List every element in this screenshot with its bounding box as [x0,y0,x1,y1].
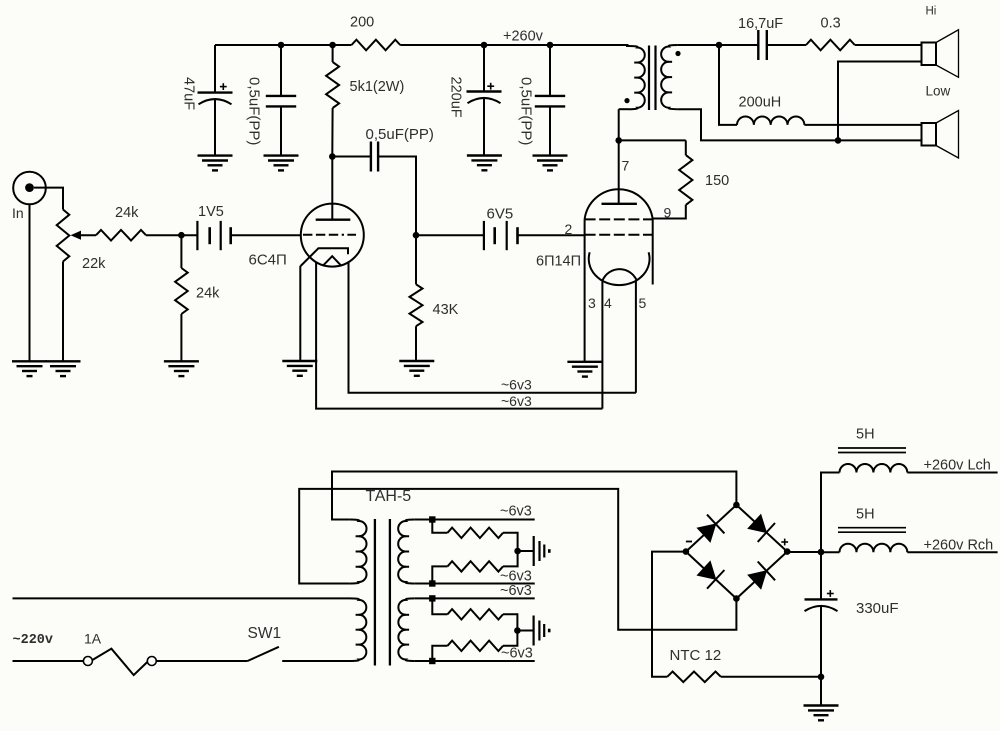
svg-text:In: In [12,205,24,221]
capacitor 0,5uF(PP) coupling [371,142,378,172]
fuse 1A [83,649,156,675]
wire heater lower top [415,597,535,599]
wire anode node to coupling cap [332,156,371,158]
svg-text:SW1: SW1 [248,625,282,642]
svg-text:43K: 43K [433,302,459,318]
diode D4 bottom-right [748,562,775,589]
diode D3 left-bottom [697,561,724,588]
wire plus node up to choke1 [821,473,840,553]
svg-text:~6v3: ~6v3 [500,583,532,599]
tube 6P14P envelope [585,189,653,284]
transformer TAN-5 HV winding [350,520,367,584]
tube 6C4P cathode [301,248,348,266]
tube 6P14P control grid dashed [585,234,653,236]
node bridge top [733,502,740,509]
wire 6P14P heater pin 4 [601,281,603,409]
resistor 24k horizontal body [96,230,146,241]
svg-text:220uF: 220uF [448,77,464,118]
polarity plus 47uF [220,83,227,90]
svg-text:6П14П: 6П14П [536,254,581,270]
svg-text:7: 7 [622,158,630,174]
node bridge left [683,548,690,555]
battery 6V5 [484,221,518,250]
transformer OPT secondary winding [661,45,678,109]
wire jack to potentiometer [34,188,63,210]
wire mains line upper [13,597,351,599]
resistor 5k1 body [326,45,339,157]
svg-text:+260v Rch: +260v Rch [924,538,994,554]
wire pot to ground [62,262,64,362]
node humdinger upper [514,548,521,555]
tube 6P14P anode [602,140,637,203]
transformer OPT primary winding [629,46,645,109]
node rail 5k1 [329,42,336,49]
wire OPT secondary top [678,44,758,46]
wire HV top to bridge [332,472,736,520]
svg-text:0,5uF(PP): 0,5uF(PP) [518,77,535,145]
wire NTC to ground node [721,676,821,678]
label bridge plus [781,539,788,546]
ground 6P14P cathode [567,362,602,377]
node heater upper top [429,516,435,522]
wire fuse to switch [156,660,247,662]
wire cap to 0.3 [767,44,806,46]
choke 5H second body [821,544,907,552]
svg-text:150: 150 [705,173,729,189]
capacitor 0,5uF(PP) second [535,45,565,156]
svg-text:NTC 12: NTC 12 [670,647,722,664]
ground potentiometer [46,361,81,376]
polarity plus 220uF [487,83,494,90]
wire switch to transformer [282,660,350,662]
humdinger resistor upper A [432,520,517,552]
transformer TAN-5 core [375,519,390,666]
svg-text:2: 2 [565,221,573,237]
ground jack [12,361,47,376]
inductor 200uH body [737,116,804,124]
svg-text:200: 200 [350,15,374,31]
svg-text:6С4П: 6С4П [249,252,287,269]
node humdinger lower [514,627,521,634]
wire +260v rail right [400,44,628,46]
svg-text:+260v Lch: +260v Lch [924,458,991,474]
wire heater upper bottom [415,583,535,585]
svg-text:16,7uF: 16,7uF [738,16,783,32]
diode D1 left-top [697,515,724,542]
node psu ground [818,674,825,681]
wire 6P14P cathode pin 3 [584,219,586,361]
bridge rectifier frame [686,505,787,599]
resistor 24k vertical body [175,235,188,361]
wire 200uH to Low speaker [804,124,921,126]
wire heater upper top [415,519,535,521]
capacitor 47uF [198,45,233,156]
wire humdinger lower to ground [517,630,533,632]
svg-text:ТАН-5: ТАН-5 [366,488,412,505]
wire heater lower bottom [415,660,535,662]
humdinger resistor upper B [432,551,517,584]
ground 47uF [198,156,233,171]
ground 0,5uF second [533,156,568,171]
wire anode node up [618,109,620,140]
transformer OPT core [649,46,656,111]
node bridge bottom [733,595,740,602]
speaker Low [922,111,959,159]
ground 24k [164,361,199,376]
node anode pin7 [615,137,622,144]
wire Hi speaker return [838,62,922,141]
wire 6P14P heater pin 5 [635,281,637,393]
wire jack ground lead [29,204,31,361]
capacitor 220uF [467,45,502,156]
resistor 43K body [410,235,423,361]
wire choke1 to Lch [907,472,997,474]
tube 6P14P heater arc [602,269,636,281]
svg-text:3: 3 [588,295,596,311]
svg-text:24k: 24k [196,286,220,302]
node grid junction [178,232,185,239]
svg-text:6V5: 6V5 [487,206,514,223]
svg-text:0,5uF(PP): 0,5uF(PP) [246,77,263,145]
wire 6C4P heater left pin [316,263,602,409]
potentiometer 22k body [57,210,70,262]
node rail 0.5uF second [547,42,554,49]
svg-text:330uF: 330uF [856,600,899,617]
node 43K junction [413,232,420,239]
node bridge plus out [818,549,825,556]
wire crossover down to 200uH [719,45,737,125]
ground humdinger upper [534,536,550,566]
choke 5H first body [840,464,908,472]
choke 5H first core [838,448,906,453]
svg-text:Low: Low [926,84,951,99]
svg-text:5H: 5H [856,427,875,443]
tube 6C4P envelope [301,204,364,267]
wire 6V5 to 6P14P grid [518,234,585,236]
svg-text:5: 5 [639,295,647,311]
switch SW1 blade [248,647,279,661]
wire 6C4P heater right pin [349,263,636,393]
node low return [835,137,842,144]
svg-text:1A: 1A [84,631,102,647]
wire psu ground lead [820,677,822,706]
potentiometer wiper arrow [71,231,97,240]
wire +260v rail left [215,44,352,46]
wire 6C4P cathode to ground [299,266,301,361]
wire 24k to grid node [146,234,197,236]
svg-text:~6v3: ~6v3 [501,376,532,392]
svg-text:0,5uF(PP): 0,5uF(PP) [366,126,434,143]
humdinger resistor lower A [432,598,517,630]
wire coupling cap to 43K node [378,157,416,236]
wire 150 to anode node [619,139,686,141]
node rail 220uF [481,42,488,49]
svg-text:5k1(2W): 5k1(2W) [350,79,405,95]
wire screen to 150 [653,205,686,219]
phase dot OPT secondary [675,51,680,56]
wire OPT secondary bottom [678,109,922,140]
svg-text:+260v: +260v [503,29,544,45]
ground 220uF [467,156,502,171]
node heater lower bottom [429,658,435,664]
ground 0,5uF first [264,156,299,171]
wire 0.3 to Hi speaker [855,44,922,46]
choke 5H second core [838,528,906,533]
ground psu [804,706,839,721]
tube 6P14P screen grid dashed [585,218,653,220]
RCA input jack J1 [13,172,46,205]
svg-text:22k: 22k [82,256,106,272]
label bridge minus [686,541,692,543]
svg-text:0.3: 0.3 [821,15,841,31]
ground 43K [399,361,434,376]
svg-text:~6v3: ~6v3 [501,393,532,409]
wire choke2 to Rch [907,551,997,553]
ground humdinger lower [534,616,550,646]
svg-text:1V5: 1V5 [198,204,224,220]
wire mains line lower left [13,660,84,662]
diode D2 top-right [748,515,775,542]
tube 6P14P cathode arc [589,252,650,285]
capacitor 0,5uF(PP) first [266,45,296,156]
wire rail to OPT primary [626,45,629,47]
svg-text:~6v3: ~6v3 [500,504,532,520]
speaker Hi [922,30,959,78]
battery 1V5 [197,221,230,250]
wire OPT primary bottom [619,108,629,110]
capacitor 16,7uF [758,30,767,60]
humdinger resistor lower B [432,631,517,662]
wire 1V5 to 6C4P grid [231,234,302,236]
transformer TAN-5 heater winding upper [398,520,415,584]
transformer TAN-5 heater winding lower [398,598,414,661]
node secondary crossover [716,42,723,49]
node rail 0.5uF [278,42,285,49]
resistor 200 body [352,40,401,51]
tube 6C4P grid dash-dot [303,234,356,236]
wire 43K node to 6V5 [416,234,484,236]
resistor 150 body [679,140,692,205]
wire HV bottom to bridge [299,489,736,630]
node heater upper bottom [429,580,435,586]
phase dot OPT primary [624,98,629,103]
ground 6C4P cathode [282,361,317,376]
node bridge right [784,548,791,555]
tube 6C4P heater [323,256,342,266]
capacitor 330uF [805,552,838,677]
wire bridge left to NTC [652,552,686,677]
resistor 0.3 body [806,40,855,51]
node heater lower top [429,595,435,601]
resistor NTC 12 body [667,672,721,683]
tube 6C4P anode [316,157,351,220]
svg-text:Hi: Hi [926,6,937,18]
wire bridge right to node [787,551,821,553]
svg-text:~6v3: ~6v3 [501,645,533,661]
node 6C4P anode [329,153,336,160]
svg-text:24k: 24k [115,205,139,221]
svg-text:5H: 5H [856,507,875,523]
polarity plus 330uF [827,590,834,597]
svg-text:47uF: 47uF [181,77,197,110]
transformer TAN-5 primary winding [350,598,366,661]
svg-text:4: 4 [604,295,612,311]
svg-text:200uH: 200uH [739,94,782,110]
wire humdinger upper to ground [518,550,534,552]
svg-text:~220v: ~220v [13,633,54,648]
